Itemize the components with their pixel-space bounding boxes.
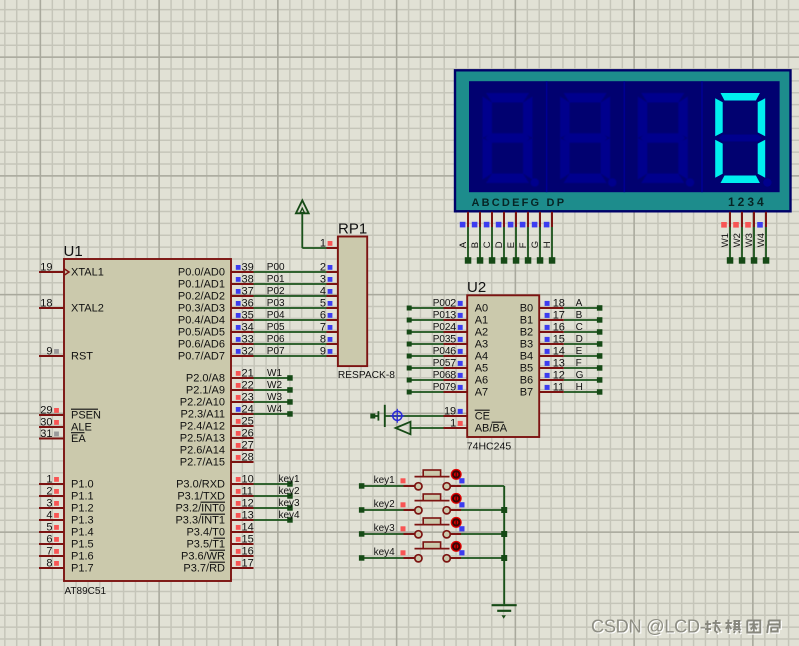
svg-text:4: 4 [46,510,52,522]
svg-text:2: 2 [450,298,456,310]
svg-text:15: 15 [242,534,254,546]
svg-text:P1.7: P1.7 [71,563,94,575]
U1 pin 7 P1.6 [39,546,94,563]
svg-text:P3.4/T0: P3.4/T0 [186,527,225,539]
svg-text:P02: P02 [267,286,285,297]
svg-text:P3.1/TXD: P3.1/TXD [177,491,225,503]
display segment legend ABCDEFG DP [472,197,567,209]
net label P01 at U2 [433,310,451,321]
svg-text:2: 2 [46,486,52,498]
U2 pin 18 B0 [520,298,565,315]
RP1 pin 1 [320,238,338,250]
U1 pin 5 P1.4 [39,522,94,539]
svg-text:P1.4: P1.4 [71,527,94,539]
svg-text:1: 1 [450,418,456,430]
svg-text:E: E [506,242,517,248]
wire net key4 from U1 [254,517,293,523]
svg-text:30: 30 [40,417,52,429]
U1 pin 31 EA [39,428,86,445]
svg-text:B0: B0 [520,303,533,315]
U1 value AT89C51 [65,586,107,597]
display pin E terminal [506,212,519,264]
display pin W4 terminal [756,212,769,264]
svg-text:15: 15 [553,334,565,346]
svg-text:B7: B7 [520,387,533,399]
wire AB/BA to arrow [411,427,444,429]
svg-text:18: 18 [553,298,565,310]
net label P03 at U2 [433,334,451,345]
wire net P02 U1 to RP1 [254,295,327,297]
svg-text:24: 24 [242,404,254,416]
U1 pin 28 P2.7/A15 [180,452,254,469]
RP1 value RESPACK-8 [338,370,395,381]
svg-text:P1.0: P1.0 [71,479,94,491]
U2 pin 5 A3 [444,334,489,351]
U1 pin 34 P0.5/AD5 [178,322,254,339]
svg-text:E: E [576,346,583,357]
wire net P02 to U2 [407,330,444,335]
U1 pin 37 P0.2/AD2 [178,286,254,303]
svg-text:G: G [530,241,541,248]
wire net P04 to U2 [407,354,444,359]
net label W1 at U1 [267,368,282,379]
net label C at U2 [576,322,583,333]
U1 pin 1 P1.0 [39,474,94,491]
svg-text:31: 31 [40,428,52,440]
U1 pin 33 P0.6/AD6 [178,334,254,351]
U1 pin 29 PSEN [39,405,101,422]
RP1 pin 4 [320,286,338,298]
U2 pin 16 B2 [520,322,565,339]
wire net E from U2 [564,353,603,359]
svg-text:P05: P05 [433,358,451,369]
U2 pin 3 A1 [444,310,489,327]
svg-text:28: 28 [242,452,254,464]
U1 pin 4 P1.3 [39,510,94,527]
svg-text:W3: W3 [744,233,755,247]
svg-text:P07: P07 [267,346,285,357]
svg-text:P3.2/INT0: P3.2/INT0 [175,503,225,515]
net label W2 at U1 [267,380,282,391]
svg-text:W2: W2 [267,380,282,391]
RP1 designator [338,221,367,238]
svg-text:key2: key2 [374,499,396,510]
svg-text:16: 16 [242,546,254,558]
net label P02 at U2 [433,322,451,333]
svg-text:RESPACK-8: RESPACK-8 [338,370,395,381]
svg-text:P1.5: P1.5 [71,539,94,551]
svg-text:B4: B4 [520,351,533,363]
svg-text:B3: B3 [520,339,533,351]
net label D at U2 [576,334,583,345]
svg-text:P3.0/RXD: P3.0/RXD [176,479,225,491]
svg-text:6: 6 [450,346,456,358]
wire net P07 U1 to RP1 [254,355,327,357]
net label A at U2 [576,298,583,309]
svg-text:P1.2: P1.2 [71,503,94,515]
wire net P00 U1 to RP1 [254,271,327,273]
U2 pin 13 B5 [520,358,565,375]
svg-text:18: 18 [40,298,52,310]
U1 pin 19 XTAL1 [39,262,104,279]
display pin H terminal [542,212,555,264]
svg-text:key3: key3 [374,523,396,534]
svg-text:ABCDEFG DP: ABCDEFG DP [472,197,567,209]
svg-text:6: 6 [46,534,52,546]
display digit separator 2 [623,81,625,192]
U1 pin 6 P1.5 [39,534,94,551]
ground terminal at CE [370,405,385,427]
CSDN watermark [591,617,781,638]
svg-text:D: D [494,241,505,248]
svg-text:9: 9 [320,346,326,358]
net label key1 at U1 [279,474,301,485]
svg-text:W3: W3 [267,392,282,403]
U2 pin 7 A5 [444,358,489,375]
U2 pin 9 A7 [444,382,489,399]
U1 pin 12 P3.2/INT0 [175,498,253,515]
display pin D terminal [494,212,507,264]
svg-text:B: B [470,242,481,248]
U1 pin 35 P0.4/AD4 [178,310,254,327]
U1 pin 24 P2.3/A11 [181,404,254,421]
display digit 4 (lit 0) [715,93,771,187]
wire net W3 from U1 [254,399,293,405]
svg-text:1: 1 [46,474,52,486]
svg-text:P0.3/AD3: P0.3/AD3 [178,303,225,315]
svg-text:H: H [542,241,553,248]
svg-text:11: 11 [242,486,253,498]
svg-text:P2.7/A15: P2.7/A15 [180,457,225,469]
U1 pin 13 P3.3/INT1 [175,510,253,527]
svg-text:29: 29 [40,405,52,417]
svg-text:W4: W4 [267,404,282,415]
display inner screen [469,81,780,192]
svg-text:21: 21 [242,368,254,380]
wire key bus vertical [503,486,505,604]
svg-text:P05: P05 [267,322,285,333]
wire net A from U2 [564,305,603,311]
svg-text:RST: RST [71,351,93,363]
display pin W3 terminal [744,212,757,264]
U1 pin 11 P3.1/TXD [177,486,253,503]
U1 pin 22 P2.1/A9 [186,380,254,397]
U2 pin 8 A6 [444,370,489,387]
svg-text:A6: A6 [475,375,488,387]
svg-text:5: 5 [450,334,456,346]
net label P00 at U2 [433,298,451,309]
svg-text:XTAL1: XTAL1 [71,267,104,279]
U1 pin 25 P2.4/A12 [180,416,254,433]
svg-text:19: 19 [40,262,52,274]
svg-text:P0.4/AD4: P0.4/AD4 [178,315,225,327]
svg-text:27: 27 [242,440,254,452]
svg-text:A1: A1 [475,315,488,327]
RP1 pin 5 [320,298,338,310]
svg-text:P0.6/AD6: P0.6/AD6 [178,339,225,351]
wire net P01 to U2 [407,318,444,323]
svg-text:P04: P04 [267,310,285,321]
svg-text:12: 12 [553,370,565,382]
wire net P01 U1 to RP1 [254,283,327,285]
U1 pin 8 P1.7 [39,558,94,575]
wire net C from U2 [564,329,603,335]
resistor pack RP1 body [338,237,367,367]
svg-text:10: 10 [242,474,254,486]
U2 pin 11 B7 [520,382,564,399]
svg-text:A0: A0 [475,303,488,315]
wire net G from U2 [564,377,603,383]
svg-text:6: 6 [320,310,326,322]
svg-text:19: 19 [444,406,456,418]
U1 pin 36 P0.3/AD3 [178,298,254,315]
svg-text:B5: B5 [520,363,533,375]
svg-text:22: 22 [242,380,254,392]
push button key2 [359,493,504,514]
svg-text:P3.6/WR: P3.6/WR [181,551,225,563]
U1 pin 15 P3.5/T1 [186,534,253,551]
svg-text:key2: key2 [279,486,301,497]
svg-text:7: 7 [46,546,52,558]
wire net P03 to U2 [407,342,444,347]
U2 value 74HC245 [467,441,512,453]
svg-text:13: 13 [553,358,565,370]
svg-text:D: D [576,334,583,345]
svg-text:P0.7/AD7: P0.7/AD7 [178,351,225,363]
junction key4 [501,555,507,561]
net label P06 at U2 [433,370,451,381]
svg-text:P03: P03 [267,298,285,309]
svg-text:25: 25 [242,416,254,428]
svg-text:P04: P04 [433,346,451,357]
U1 pin 2 P1.1 [39,486,94,503]
net label P07 at U2 [433,382,451,393]
power terminal VCC arrow [296,200,309,213]
svg-text:17: 17 [242,558,254,570]
svg-text:P1.1: P1.1 [71,491,94,503]
svg-text:17: 17 [553,310,565,322]
display pin A terminal [458,212,471,264]
U1 pin 14 P3.4/T0 [186,522,253,539]
svg-text:F: F [518,242,529,248]
U1 pin 21 P2.0/A8 [186,368,254,385]
svg-text:36: 36 [242,298,254,310]
wire net P05 to U2 [407,366,444,371]
display pin G terminal [530,212,543,264]
push button key1 [359,469,504,490]
U2 pin 2 A0 [444,298,489,315]
power arrow terminal at AB/BA [396,422,411,435]
display digit separator 1 [546,81,548,192]
wire net P04 U1 to RP1 [254,319,327,321]
svg-text:A4: A4 [475,351,488,363]
svg-text:39: 39 [242,262,254,274]
U1 pin 38 P0.1/AD1 [178,274,254,291]
svg-text:P2.2/A10: P2.2/A10 [180,397,225,409]
svg-text:CSDN @LCD-: CSDN @LCD- [591,617,706,637]
svg-text:U2: U2 [467,279,486,296]
net label P05 at U2 [433,358,451,369]
svg-text:12: 12 [242,498,254,510]
svg-text:C: C [576,322,583,333]
net label P05 [267,322,285,333]
net label B at U2 [576,310,583,321]
push button key3 [359,517,504,538]
svg-text:W1: W1 [720,233,731,247]
svg-text:key1: key1 [374,475,396,486]
junction key2 [501,507,507,513]
svg-text:4: 4 [320,286,326,298]
wire net W1 from U1 [254,375,293,381]
RP1 pin 7 [320,322,338,334]
svg-text:38: 38 [242,274,254,286]
RP1 pin 2 [320,262,338,274]
svg-text:key3: key3 [279,498,301,509]
svg-text:W1: W1 [267,368,282,379]
svg-text:8: 8 [46,558,52,570]
svg-text:26: 26 [242,428,254,440]
svg-text:A: A [458,241,469,248]
wire CE to ground [386,415,444,417]
MCU U1 AT89C51 body [64,259,231,581]
net label H at U2 [576,382,583,393]
display digit 2 (dim 8) [560,93,616,187]
net label E at U2 [576,346,583,357]
svg-text:74HC245: 74HC245 [467,441,512,453]
wire net P06 U1 to RP1 [254,343,327,345]
svg-text:P1.3: P1.3 [71,515,94,527]
display pin W1 terminal [720,212,733,264]
svg-text:ALE: ALE [71,422,92,434]
svg-text:13: 13 [242,510,254,522]
RP1 pin 6 [320,310,338,322]
svg-text:P0.0/AD0: P0.0/AD0 [178,267,225,279]
svg-text:8: 8 [320,334,326,346]
RP1 pin 3 [320,274,338,286]
svg-text:16: 16 [553,322,565,334]
svg-text:P02: P02 [433,322,451,333]
junction key3 [501,531,507,537]
svg-text:U1: U1 [64,243,83,260]
svg-text:P00: P00 [267,262,285,273]
svg-text:A7: A7 [475,387,488,399]
svg-text:3: 3 [46,498,52,510]
svg-text:8: 8 [450,370,456,382]
net label W4 at U1 [267,404,282,415]
svg-text:A: A [576,298,583,309]
push button key4 [359,541,504,562]
U1 pin 3 P1.2 [39,498,94,515]
wire net W4 from U1 [254,411,293,417]
svg-text:P2.1/A9: P2.1/A9 [186,385,225,397]
svg-text:key4: key4 [374,547,396,558]
U2 pin 4 A2 [444,322,489,339]
svg-text:5: 5 [320,298,326,310]
U2 pin 14 B4 [520,346,565,363]
svg-text:B2: B2 [520,327,533,339]
wire net P03 U1 to RP1 [254,307,327,309]
svg-text:A5: A5 [475,363,488,375]
svg-text:EA: EA [71,433,86,445]
U1 pin 9 RST [39,346,93,363]
display pin W2 terminal [732,212,745,264]
svg-text:W4: W4 [756,233,767,247]
svg-text:2: 2 [320,262,326,274]
svg-text:P2.6/A14: P2.6/A14 [180,445,225,457]
U1 pin 18 XTAL2 [39,298,104,315]
U1 pin 23 P2.2/A10 [180,392,254,409]
svg-text:7: 7 [450,358,456,370]
wire net H from U2 [564,389,603,395]
RP1 pin 8 [320,334,338,346]
svg-text:key4: key4 [279,510,301,521]
svg-text:3: 3 [320,274,326,286]
wire net key3 from U1 [254,505,293,511]
svg-text:1: 1 [320,238,326,250]
svg-text:G: G [576,370,584,381]
svg-text:P2.5/A13: P2.5/A13 [180,433,225,445]
U2 pin 6 A4 [444,346,489,363]
svg-text:5: 5 [46,522,52,534]
RP1 pin 9 [320,346,338,358]
buffer U2 74HC245 body [467,295,539,437]
svg-text:RP1: RP1 [338,221,367,238]
display pin F terminal [518,212,531,264]
U2 pin 15 B3 [520,334,565,351]
net label P03 [267,298,285,309]
svg-text:PSEN: PSEN [71,410,101,422]
U1 pin 26 P2.5/A13 [180,428,254,445]
svg-text:4: 4 [450,322,456,334]
svg-text:9: 9 [46,346,52,358]
net label P04 at U2 [433,346,451,357]
net label P01 [267,274,285,285]
wire net D from U2 [564,341,603,347]
wire net B from U2 [564,317,603,323]
display pin B terminal [470,212,483,264]
svg-text:XTAL2: XTAL2 [71,303,104,315]
svg-text:P2.3/A11: P2.3/A11 [181,409,225,421]
svg-text:32: 32 [242,346,254,358]
U2 pin 1 AB/BA [444,418,508,435]
svg-text:W2: W2 [732,233,743,247]
svg-text:P2.0/A8: P2.0/A8 [186,373,225,385]
svg-text:H: H [576,382,583,393]
svg-text:B6: B6 [520,375,533,387]
svg-text:P06: P06 [433,370,451,381]
display digit legend 1234 [728,195,767,209]
net label key2 at U1 [279,486,301,497]
net label key3 at U1 [279,498,301,509]
U1 pin 10 P3.0/RXD [176,474,254,491]
net label P04 [267,310,285,321]
U1 pin 32 P0.7/AD7 [178,346,254,363]
svg-text:P0.2/AD2: P0.2/AD2 [178,291,225,303]
net label P06 [267,334,285,345]
U1 pin 27 P2.6/A14 [180,440,254,457]
ground symbol keys [492,605,517,619]
svg-text:P3.3/INT1: P3.3/INT1 [175,515,225,527]
net label P02 [267,286,285,297]
U2 pin 12 B6 [520,370,565,387]
svg-text:AB/BA: AB/BA [475,423,508,435]
svg-text:P01: P01 [433,310,451,321]
wire net F from U2 [564,365,603,371]
net label F at U2 [576,358,582,369]
U1 pin 17 P3.7/RD [183,558,253,575]
svg-text:P07: P07 [433,382,451,393]
U2 designator [467,279,486,296]
